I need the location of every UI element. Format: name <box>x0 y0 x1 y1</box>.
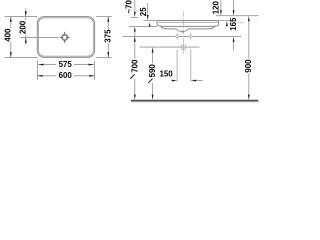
svg-text:700: 700 <box>130 59 139 73</box>
svg-text:25: 25 <box>139 7 148 16</box>
svg-text:590: 590 <box>148 64 157 78</box>
svg-text:200: 200 <box>18 20 27 34</box>
svg-text:165: 165 <box>229 17 238 31</box>
svg-text:600: 600 <box>59 71 73 80</box>
svg-text:575: 575 <box>59 60 73 69</box>
svg-text:120: 120 <box>212 1 221 15</box>
svg-text:900: 900 <box>244 59 253 73</box>
svg-text:400: 400 <box>4 28 13 42</box>
svg-text:~70: ~70 <box>125 0 134 13</box>
svg-text:150: 150 <box>160 69 174 78</box>
svg-text:375: 375 <box>103 29 112 43</box>
